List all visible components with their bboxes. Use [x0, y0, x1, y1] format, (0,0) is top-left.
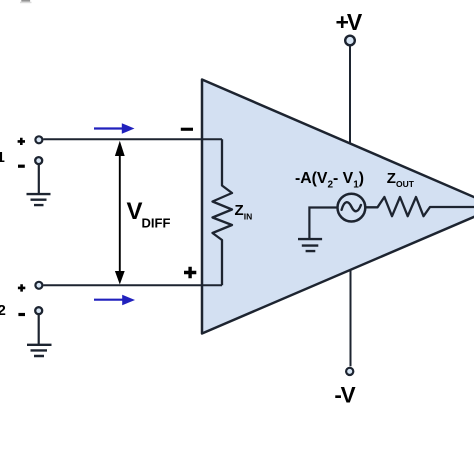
- ground G3 (source): [298, 239, 322, 251]
- ground G1: [27, 194, 51, 205]
- op-amp plus sign: [184, 267, 196, 279]
- svg-text:2: 2: [0, 302, 6, 319]
- svg-text:Z: Z: [235, 202, 244, 219]
- cropped text remnant top-left: [21, 0, 30, 2]
- svg-text:DIFF: DIFF: [142, 216, 171, 231]
- wire source to ground: [309, 208, 337, 239]
- +V supply wire: [349, 46, 351, 144]
- node V2 plus marker: [18, 284, 25, 291]
- terminal circle V1+: [35, 136, 42, 143]
- dependent source -A(V2-V1): [338, 194, 366, 222]
- resistor ZOUT: [366, 197, 474, 216]
- terminal circle V2+: [35, 282, 42, 289]
- wire input2 to ground: [38, 315, 40, 344]
- -V supply wire: [350, 270, 352, 367]
- node V2 minus marker: [18, 313, 25, 316]
- terminal circle V1-: [35, 157, 42, 164]
- +V terminal: [345, 36, 355, 46]
- svg-text:Z: Z: [387, 170, 396, 187]
- svg-text:1: 1: [0, 149, 5, 166]
- blue current arrow input1: [94, 127, 123, 129]
- -V terminal: [346, 368, 353, 375]
- svg-text:V: V: [127, 198, 143, 225]
- op-amp U1 triangle body: [202, 80, 474, 334]
- wire inverting input: [43, 138, 222, 140]
- wire input1 to ground: [38, 165, 40, 194]
- svg-text:OUT: OUT: [396, 179, 415, 189]
- VDIFF double arrow: [119, 154, 121, 272]
- ground G2: [27, 345, 52, 356]
- node V1 plus marker: [18, 138, 25, 145]
- blue current arrow input2: [94, 299, 124, 301]
- sine symbol: [342, 202, 361, 211]
- terminal circle V2-: [35, 307, 42, 314]
- svg-text:+V: +V: [336, 9, 363, 35]
- wire non-inverting input: [43, 284, 222, 286]
- node V1 minus marker: [18, 165, 25, 168]
- resistor ZIN: [213, 139, 233, 285]
- svg-text:-V: -V: [334, 382, 355, 407]
- op-amp minus sign: [181, 128, 193, 131]
- svg-text:IN: IN: [244, 211, 253, 221]
